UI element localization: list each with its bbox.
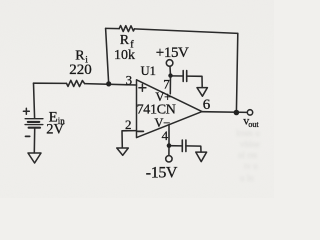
svg-text:4: 4 [162,128,169,143]
plus mark pin3 inside triangle [139,84,146,91]
svg-text:2V: 2V [46,122,64,138]
capacitor C2 plates [182,140,186,152]
junction dot at Ri/Rf node [106,81,111,86]
wire: feedback left vertical [106,28,109,84]
wire: junction to +15V terminal [169,66,172,75]
junction dot at output [234,110,240,116]
resistor Ri [67,80,85,86]
terminal circle -15V [166,156,172,162]
wire: pin 7 stub up [169,76,171,94]
ground at V+ cap [197,88,207,97]
svg-text:lrnm u: lrnm u [236,128,260,138]
paper background [0,0,274,198]
svg-text:R: R [75,48,85,63]
battery E_in plates [25,118,43,120]
wire: feedback right vertical [236,33,237,112]
wire: V+ cap branch [171,75,183,77]
svg-text:220: 220 [69,62,92,78]
svg-text:-15V: -15V [146,164,178,181]
ground at pin 2 [117,148,129,155]
bleed-through text (faint) [236,128,260,183]
wire: Ri to op-amp + input [85,84,137,85]
battery minus mark [26,135,30,137]
battery plus mark [23,108,29,114]
ground at V- cap [196,152,207,162]
wire: cap to ground V- [186,146,201,152]
ground below battery [28,153,41,163]
wire: input horizontal from battery corner to op-amp pin 3 [34,82,67,84]
svg-text:nl rm: nl rm [238,150,257,160]
wire: top left segment [106,27,120,29]
svg-text:+15V: +15V [156,45,189,61]
wire: pin 2 to ground [122,131,137,148]
minus mark pin2 inside triangle [138,130,144,132]
wire: battery to ground [33,129,35,153]
wire: top segment to right corner [134,29,237,34]
terminal circle vout [247,110,252,115]
wire: cap to ground V+ [187,76,203,87]
junction dot at pin 4 [167,143,172,148]
resistor Rf [119,26,134,32]
wire: junction to -15V terminal [168,146,170,156]
svg-text:u ln: u ln [240,173,254,183]
svg-text:tv n: tv n [244,161,258,171]
svg-text:6: 6 [203,97,211,113]
op-amp U1 triangle [137,80,203,138]
svg-text:vhlne: vhlne [240,139,260,149]
svg-text:10k: 10k [114,48,135,63]
svg-text:2: 2 [125,117,132,132]
wire: left vertical down to battery [34,83,35,118]
svg-text:3: 3 [126,73,133,88]
terminal circle +15V [166,60,173,67]
wire: output [202,111,247,114]
wire: pin 4 stub down [168,125,170,146]
wire: V- cap branch [169,145,182,147]
capacitor C1 plates [183,71,187,82]
svg-text:U1: U1 [141,64,156,78]
svg-text:R: R [120,33,130,48]
junction dot at pin 7 [168,73,172,77]
svg-text:out: out [248,120,259,129]
